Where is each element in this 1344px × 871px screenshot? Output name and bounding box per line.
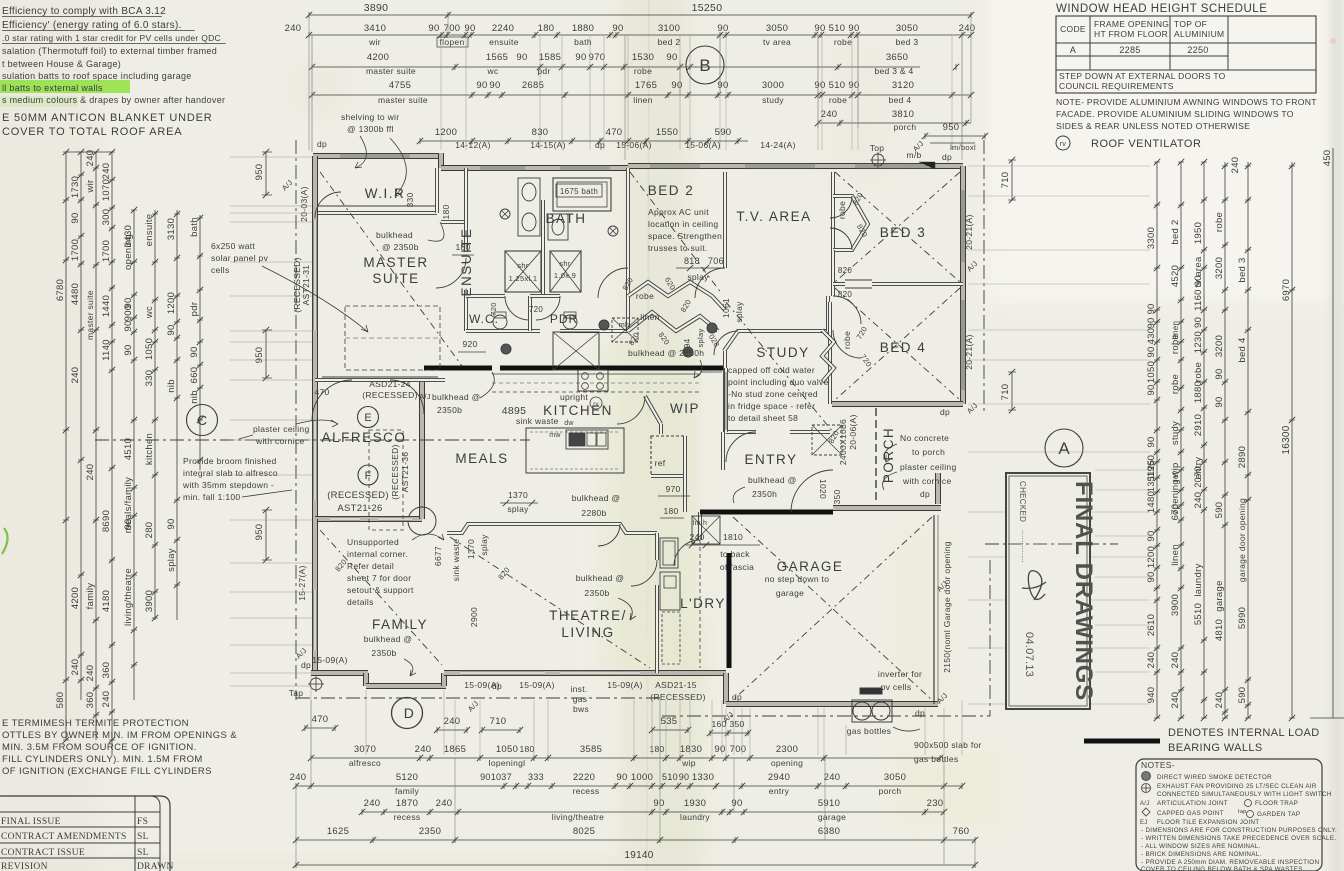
svg-text:3410: 3410	[364, 23, 386, 34]
svg-text:CHECKED: CHECKED	[1018, 481, 1027, 522]
svg-text:3300: 3300	[1146, 227, 1157, 249]
svg-text:2910: 2910	[1193, 414, 1204, 436]
svg-text:1160 90: 1160 90	[1193, 275, 1204, 311]
svg-text:360: 360	[101, 662, 112, 679]
svg-text:240: 240	[290, 772, 307, 783]
svg-text:gas bottles: gas bottles	[847, 726, 891, 736]
svg-text:470: 470	[312, 714, 329, 725]
svg-text:robe: robe	[636, 291, 654, 301]
svg-text:4200: 4200	[367, 52, 389, 63]
svg-text:4520: 4520	[1170, 265, 1181, 287]
svg-text:90: 90	[714, 744, 725, 755]
svg-text:lopeningl: lopeningl	[489, 758, 526, 768]
svg-text:rv: rv	[593, 402, 599, 408]
svg-text:shelving to wir: shelving to wir	[341, 112, 399, 122]
svg-text:3900: 3900	[1170, 594, 1181, 616]
svg-text:2400X1086: 2400X1086	[838, 419, 848, 465]
svg-text:1330: 1330	[692, 772, 714, 783]
svg-text:Approx AC unit: Approx AC unit	[648, 207, 709, 217]
svg-text:670: 670	[1170, 504, 1181, 521]
svg-text:5990: 5990	[1237, 607, 1248, 629]
svg-text:3000: 3000	[762, 80, 784, 91]
svg-text:E TERMIMESH TERMITE PROTECTION: E TERMIMESH TERMITE PROTECTION	[2, 718, 189, 729]
svg-text:510: 510	[829, 80, 846, 91]
svg-text:720: 720	[529, 305, 543, 314]
svg-text:pdr: pdr	[189, 302, 200, 317]
svg-text:FS: FS	[137, 817, 148, 827]
svg-text:to detail sheet 58: to detail sheet 58	[728, 413, 798, 423]
svg-text:04.07.13: 04.07.13	[1023, 632, 1035, 677]
svg-text:(RECESSED): (RECESSED)	[390, 444, 400, 499]
svg-text:kitchen: kitchen	[144, 433, 155, 465]
svg-text:(RECESSED): (RECESSED)	[327, 490, 389, 501]
right 710 dims	[1000, 157, 1016, 413]
svg-text:robe: robe	[1170, 374, 1181, 394]
svg-text:MIN. 3.5M FROM SOURCE OF IGNIT: MIN. 3.5M FROM SOURCE OF IGNITION.	[2, 742, 197, 753]
svg-text:1565: 1565	[486, 52, 508, 63]
svg-text:- WRITTEN DIMENSIONS TAKE PREC: - WRITTEN DIMENSIONS TAKE PRECEDENCE OVE…	[1141, 835, 1336, 842]
svg-text:wir: wir	[368, 37, 381, 47]
svg-text:with cornice: with cornice	[902, 476, 951, 486]
svg-text:LIVING: LIVING	[561, 625, 614, 640]
svg-text:90: 90	[666, 52, 677, 63]
svg-text:NOTE- PROVIDE ALUMINIUM AWNING: NOTE- PROVIDE ALUMINIUM AWNING WINDOWS T…	[1056, 97, 1317, 107]
svg-text:720: 720	[489, 302, 498, 315]
svg-text:recess: recess	[573, 786, 600, 796]
revision table	[0, 796, 174, 871]
svg-text:THEATRE/: THEATRE/	[549, 608, 627, 623]
svg-text:bulkhead @: bulkhead @	[576, 573, 625, 583]
svg-text:15-06(A): 15-06(A)	[616, 140, 651, 150]
svg-text:90: 90	[123, 320, 134, 331]
svg-text:dp: dp	[732, 692, 742, 702]
svg-text:A: A	[1070, 45, 1076, 55]
svg-text:shr: shr	[559, 259, 571, 268]
svg-text:robe: robe	[1214, 212, 1225, 232]
bottom dimension block	[290, 700, 979, 868]
svg-text:plaster ceiling: plaster ceiling	[900, 462, 956, 472]
svg-text:living/theatre: living/theatre	[123, 568, 134, 626]
svg-text:sink waste: sink waste	[451, 539, 461, 582]
svg-text:ensuite: ensuite	[489, 37, 519, 47]
svg-text:C: C	[197, 412, 207, 428]
section line across stamp	[1008, 543, 1088, 545]
svg-text:trusses to suit.: trusses to suit.	[648, 243, 708, 253]
svg-text:pv cells: pv cells	[881, 682, 912, 692]
svg-text:master suite: master suite	[378, 95, 428, 105]
svg-text:location in ceiling: location in ceiling	[648, 219, 718, 229]
svg-text:HT FROM FLOOR: HT FROM FLOOR	[1094, 29, 1168, 39]
svg-text:STUDY: STUDY	[756, 345, 809, 360]
svg-text:2890: 2890	[1237, 446, 1248, 468]
svg-text:1950: 1950	[1193, 222, 1204, 244]
svg-text:180: 180	[519, 744, 534, 754]
svg-text:240: 240	[821, 109, 838, 120]
svg-text:2150(noml Garage door opening: 2150(noml Garage door opening	[942, 541, 952, 673]
svg-text:ALUMINIUM: ALUMINIUM	[1174, 29, 1224, 39]
svg-text:Refer detail: Refer detail	[347, 561, 394, 571]
svg-text:wir: wir	[85, 179, 96, 193]
svg-text:A/J: A/J	[419, 392, 431, 401]
svg-text:point including duo valve: point including duo valve	[728, 377, 829, 387]
svg-text:wc: wc	[144, 306, 155, 319]
svg-text:FACADE. PROVIDE ALUMINIUM SLID: FACADE. PROVIDE ALUMINIUM SLIDING WINDOW…	[1056, 109, 1294, 119]
svg-text:bulkhead @: bulkhead @	[432, 392, 481, 402]
svg-text:SL: SL	[137, 848, 149, 858]
svg-text:alfresco: alfresco	[349, 758, 381, 768]
svg-text:ALFRESCO: ALFRESCO	[322, 430, 407, 445]
svg-text:bws: bws	[573, 704, 589, 714]
dashed ceiling diagonals	[320, 172, 960, 700]
svg-text:OTTLES BY OWNER MIN. IM FROM O: OTTLES BY OWNER MIN. IM FROM OPENINGS &	[2, 730, 237, 741]
svg-text:robe: robe	[1193, 362, 1204, 382]
svg-text:180: 180	[649, 744, 664, 754]
svg-text:535: 535	[661, 716, 678, 727]
svg-text:14-24(A): 14-24(A)	[760, 140, 795, 150]
svg-text:@ 2350b: @ 2350b	[382, 242, 419, 252]
svg-text:wip: wip	[681, 758, 696, 768]
svg-text:3130: 3130	[166, 218, 177, 240]
svg-text:1830: 1830	[680, 744, 702, 755]
svg-text:240: 240	[1230, 157, 1241, 174]
svg-text:1765: 1765	[635, 80, 657, 91]
svg-text:internal corner.: internal corner.	[347, 549, 408, 559]
door arcs	[312, 192, 861, 586]
svg-text:ENSUITE: ENSUITE	[459, 227, 474, 296]
svg-text:2250: 2250	[1187, 45, 1208, 55]
svg-text:1200: 1200	[435, 127, 457, 138]
svg-text:garage: garage	[776, 588, 804, 598]
svg-text:rv: rv	[1060, 141, 1067, 148]
svg-text:90 90: 90 90	[1146, 303, 1157, 328]
svg-text:2900: 2900	[469, 607, 479, 627]
svg-text:linen: linen	[633, 95, 652, 105]
svg-text:950: 950	[254, 347, 265, 364]
svg-text:2070: 2070	[1193, 466, 1203, 487]
svg-text:14-15(A): 14-15(A)	[530, 140, 565, 150]
right dimension block	[1146, 148, 1344, 721]
svg-text:90: 90	[671, 80, 682, 91]
svg-text:6x250 watt: 6x250 watt	[211, 241, 255, 251]
svg-text:wc: wc	[487, 66, 499, 76]
svg-text:-No stud zone centred: -No stud zone centred	[728, 389, 818, 399]
svg-text:mh: mh	[619, 322, 629, 329]
svg-text:1810: 1810	[723, 532, 743, 542]
svg-text:3050: 3050	[766, 23, 788, 34]
svg-text:6970: 6970	[1281, 279, 1292, 301]
svg-text:bath: bath	[574, 37, 592, 47]
svg-text:PDR: PDR	[550, 312, 578, 326]
svg-text:90: 90	[123, 344, 134, 355]
svg-text:bed 2: bed 2	[658, 37, 681, 47]
svg-text:180: 180	[663, 506, 678, 516]
svg-text:FRAME OPENING: FRAME OPENING	[1094, 19, 1169, 29]
svg-text:1.25xl.1: 1.25xl.1	[509, 274, 538, 283]
svg-text:90: 90	[1146, 436, 1157, 447]
svg-text:AST21-26: AST21-26	[337, 503, 382, 514]
svg-text:3200: 3200	[1214, 335, 1225, 357]
svg-text:2280b: 2280b	[581, 508, 606, 518]
svg-text:master suite: master suite	[366, 66, 416, 76]
svg-text:A/J: A/J	[1140, 801, 1150, 807]
svg-text:CONTRACT ISSUE: CONTRACT ISSUE	[1, 848, 85, 858]
svg-text:splay: splay	[696, 328, 705, 347]
svg-text:- ALL WINDOW SIZES ARE NOMINAL: - ALL WINDOW SIZES ARE NOMINAL.	[1141, 843, 1261, 850]
svg-text:robe: robe	[834, 37, 852, 47]
svg-text:dp: dp	[940, 407, 950, 417]
svg-text:sulation batts to roof space i: sulation batts to roof space including g…	[2, 71, 192, 81]
svg-text:sink waste: sink waste	[516, 416, 559, 426]
svg-text:2350: 2350	[419, 826, 441, 837]
svg-text:bed 4: bed 4	[1237, 337, 1248, 362]
svg-text:510: 510	[662, 772, 678, 782]
svg-text:setout & support: setout & support	[347, 585, 414, 595]
svg-text:135: 135	[1146, 476, 1156, 492]
svg-text:Unsupported: Unsupported	[347, 537, 399, 547]
svg-text:1550: 1550	[656, 127, 678, 138]
svg-text:90: 90	[166, 324, 177, 335]
svg-text:ensuite: ensuite	[144, 214, 155, 247]
svg-text:dw: dw	[564, 420, 574, 427]
svg-text:REVISION: REVISION	[1, 862, 48, 871]
top dimension block	[285, 2, 989, 160]
svg-text:opening: opening	[771, 758, 803, 768]
svg-text:90: 90	[814, 23, 825, 34]
svg-text:family: family	[85, 583, 96, 610]
svg-text:15-06(A): 15-06(A)	[685, 140, 720, 150]
svg-text:CONNECTED SIMULTANEOUSLY WITH: CONNECTED SIMULTANEOUSLY WITH LIGHT SWIT…	[1157, 791, 1332, 798]
svg-text:T.V. AREA: T.V. AREA	[736, 209, 811, 224]
svg-text:nib: nib	[166, 379, 177, 393]
svg-text:90: 90	[731, 798, 742, 809]
svg-text:240: 240	[1193, 492, 1204, 509]
svg-text:solar panel pv: solar panel pv	[211, 253, 269, 263]
svg-text:.0 star rating with 1 star cre: .0 star rating with 1 star credit for PV…	[2, 33, 221, 43]
svg-text:240: 240	[689, 532, 704, 542]
svg-text:shr: shr	[517, 261, 529, 270]
svg-text:90: 90	[123, 518, 134, 529]
witness lines bottom	[311, 676, 962, 755]
svg-text:DRAWN: DRAWN	[137, 862, 174, 871]
svg-text:NOTES-: NOTES-	[1141, 760, 1175, 770]
svg-text:TOP OF: TOP OF	[1174, 19, 1207, 29]
svg-text:DIRECT WIRED SMOKE DETECTOR: DIRECT WIRED SMOKE DETECTOR	[1157, 774, 1272, 781]
svg-text:970: 970	[665, 484, 680, 494]
svg-text:t between House & Garage): t between House & Garage)	[2, 59, 121, 69]
svg-text:DENOTES INTERNAL LOAD: DENOTES INTERNAL LOAD	[1168, 727, 1320, 739]
svg-text:details: details	[347, 597, 374, 607]
svg-text:ENTRY: ENTRY	[744, 452, 797, 467]
svg-text:PORCH: PORCH	[881, 427, 896, 483]
svg-text:min. fall 1:100: min. fall 1:100	[183, 492, 240, 502]
svg-text:90: 90	[166, 518, 177, 529]
svg-text:710: 710	[490, 716, 507, 727]
svg-text:15250: 15250	[692, 2, 723, 14]
svg-text:3900: 3900	[144, 590, 155, 612]
svg-text:BEARING WALLS: BEARING WALLS	[1168, 742, 1263, 754]
svg-text:20-21(A): 20-21(A)	[964, 214, 974, 249]
kitchen	[492, 370, 726, 473]
plan annotations	[211, 112, 982, 764]
svg-text:6677: 6677	[433, 546, 443, 566]
svg-text:5510: 5510	[1193, 603, 1204, 625]
svg-text:240: 240	[85, 464, 96, 481]
svg-text:3120: 3120	[892, 80, 914, 91]
svg-text:180: 180	[455, 242, 470, 252]
svg-text:940: 940	[1146, 687, 1157, 704]
svg-text:240: 240	[70, 659, 81, 676]
svg-text:4510: 4510	[123, 438, 134, 460]
svg-text:300: 300	[101, 209, 112, 226]
svg-text:240: 240	[285, 23, 302, 34]
svg-text:upright: upright	[560, 392, 588, 402]
svg-text:1230 90: 1230 90	[1193, 317, 1204, 353]
svg-text:1625: 1625	[327, 826, 349, 837]
svg-text:2940: 2940	[768, 772, 790, 783]
svg-text:8690: 8690	[101, 510, 112, 532]
svg-text:bulkhead: bulkhead	[376, 230, 413, 240]
svg-text:240: 240	[1170, 692, 1181, 709]
laundry fixtures	[660, 538, 700, 668]
svg-text:15-27(A): 15-27(A)	[297, 565, 307, 600]
svg-text:to porch: to porch	[912, 447, 945, 457]
external walls	[311, 153, 963, 704]
svg-text:5120: 5120	[396, 772, 418, 783]
svg-text:FAMILY: FAMILY	[372, 617, 428, 632]
room labels	[322, 183, 927, 640]
svg-text:master suite: master suite	[85, 290, 95, 340]
svg-text:robe: robe	[634, 66, 652, 76]
svg-text:- PROVIDE A 250mm DIAM. REMOVE: - PROVIDE A 250mm DIAM. REMOVEABLE INSPE…	[1141, 859, 1319, 866]
svg-text:laundry: laundry	[1193, 563, 1204, 596]
svg-text:robe: robe	[837, 201, 847, 219]
svg-text:of fascia: of fascia	[720, 562, 754, 572]
svg-text:1480: 1480	[1146, 491, 1157, 513]
svg-text:ASD21-24: ASD21-24	[369, 379, 411, 389]
svg-text:space. Strengthen: space. Strengthen	[648, 231, 722, 241]
svg-text:2240: 2240	[492, 23, 514, 34]
svg-text:D: D	[404, 705, 414, 721]
svg-text:Efficiency' (energy rating of: Efficiency' (energy rating of 6.0 stars)…	[2, 20, 182, 31]
svg-text:linen: linen	[640, 312, 659, 322]
witness lines top	[312, 36, 962, 150]
svg-text:90: 90	[679, 772, 690, 782]
svg-text:590: 590	[715, 127, 732, 138]
svg-text:B: B	[699, 56, 710, 75]
svg-text:W.I.R: W.I.R	[365, 186, 406, 201]
svg-text:20-06(A): 20-06(A)	[848, 414, 858, 449]
svg-text:710: 710	[1000, 384, 1011, 401]
svg-text:360: 360	[85, 692, 96, 709]
svg-text:MEALS: MEALS	[455, 451, 508, 466]
svg-text:350: 350	[832, 489, 842, 504]
section dash-dot lines	[95, 140, 1118, 716]
svg-text:180: 180	[538, 23, 555, 34]
svg-text:1050: 1050	[496, 744, 518, 755]
svg-text:90: 90	[476, 80, 487, 91]
svg-text:90: 90	[653, 798, 664, 809]
svg-text:CODE: CODE	[1060, 24, 1086, 34]
C section circle	[187, 405, 218, 436]
svg-text:CONTRACT AMENDMENTS: CONTRACT AMENDMENTS	[1, 832, 127, 842]
window head height schedule	[1056, 3, 1336, 150]
svg-text:2220: 2220	[573, 772, 595, 783]
svg-text:FLOOR TRAP: FLOOR TRAP	[1255, 800, 1298, 807]
svg-text:dp: dp	[915, 708, 925, 718]
svg-text:90: 90	[464, 23, 475, 34]
svg-text:entry: entry	[769, 786, 790, 796]
svg-text:90: 90	[717, 23, 728, 34]
svg-text:WIP: WIP	[670, 401, 700, 416]
svg-text:6780: 6780	[55, 279, 66, 301]
svg-text:garage door opening: garage door opening	[1237, 498, 1247, 582]
svg-text:ASD21-15: ASD21-15	[655, 680, 697, 690]
svg-text:splay: splay	[507, 504, 529, 514]
svg-text:EJ: EJ	[1140, 820, 1148, 826]
svg-text:3050: 3050	[884, 772, 906, 783]
svg-text:280: 280	[144, 522, 155, 539]
svg-text:BATH: BATH	[545, 211, 586, 226]
svg-text:950: 950	[254, 524, 265, 541]
svg-text:19140: 19140	[624, 850, 653, 861]
svg-text:salation (Thermotuff foil) to: salation (Thermotuff foil) to external t…	[2, 46, 217, 56]
svg-text:240: 240	[436, 798, 453, 809]
svg-text:GARDEN TAP: GARDEN TAP	[1257, 811, 1300, 818]
svg-text:90: 90	[1214, 368, 1225, 379]
top-left notes text	[0, 6, 226, 138]
svg-text:lm h: lm h	[693, 520, 707, 527]
svg-text:1700: 1700	[70, 239, 81, 261]
svg-text:660: 660	[189, 367, 200, 384]
svg-text:590: 590	[1214, 502, 1225, 519]
svg-text:ref: ref	[655, 458, 666, 468]
svg-text:2350b: 2350b	[371, 648, 396, 658]
svg-text:robe: robe	[842, 331, 852, 349]
svg-text:240: 240	[959, 23, 976, 34]
svg-text:1061: 1061	[721, 298, 731, 318]
svg-text:ROOF VENTILATOR: ROOF VENTILATOR	[1091, 138, 1201, 150]
svg-text:plaster ceiling: plaster ceiling	[253, 424, 309, 434]
svg-text:1140: 1140	[101, 339, 112, 361]
svg-text:1870: 1870	[396, 798, 418, 809]
svg-text:gas bottles: gas bottles	[914, 754, 958, 764]
svg-text:90: 90	[616, 772, 627, 783]
svg-text:90: 90	[717, 80, 728, 91]
svg-text:470: 470	[606, 127, 623, 138]
svg-text:1930: 1930	[684, 798, 706, 809]
svg-text:1020: 1020	[818, 479, 828, 499]
svg-text:3070: 3070	[354, 744, 376, 755]
svg-text:GARAGE: GARAGE	[777, 559, 844, 574]
svg-text:robe: robe	[829, 95, 847, 105]
svg-text:450: 450	[1322, 150, 1333, 167]
svg-text:No concrete: No concrete	[900, 433, 949, 443]
svg-text:3890: 3890	[364, 2, 389, 14]
A section circle	[1045, 429, 1083, 467]
svg-text:90: 90	[1146, 346, 1157, 357]
svg-text:590: 590	[1237, 687, 1248, 704]
svg-text:ll batts to external walls: ll batts to external walls	[2, 83, 103, 93]
svg-text:90: 90	[575, 52, 586, 63]
svg-text:20-03(A): 20-03(A)	[299, 186, 309, 221]
svg-text:950: 950	[943, 122, 960, 133]
svg-text:510: 510	[829, 23, 846, 34]
svg-text:580: 580	[55, 692, 66, 709]
svg-text:700: 700	[444, 23, 461, 34]
svg-text:240: 240	[101, 163, 112, 180]
svg-text:15-09(A): 15-09(A)	[312, 655, 347, 665]
svg-text:no step down to: no step down to	[765, 574, 830, 584]
